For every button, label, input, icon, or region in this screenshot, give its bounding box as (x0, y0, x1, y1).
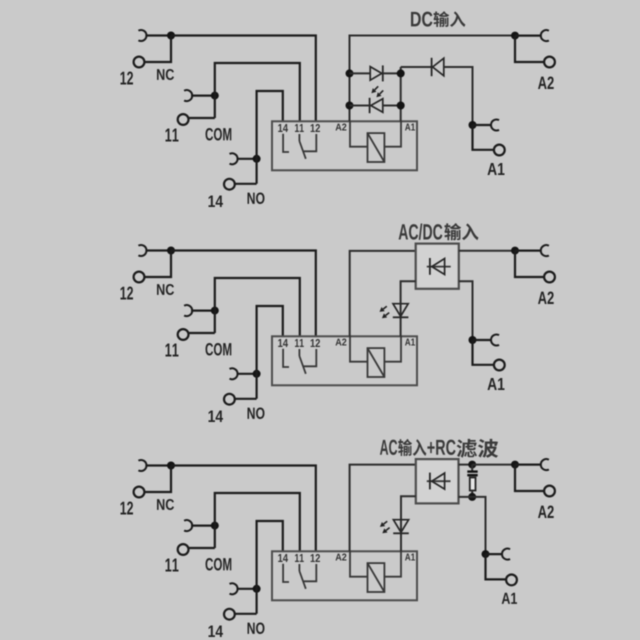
LED LD1 light arrow 2 (380, 90, 384, 94)
screw terminal 11 (circuit 1) (178, 114, 189, 125)
relay pin label A2 (336, 339, 347, 346)
label 11 (166, 344, 179, 357)
contact 12 fixed (NC) (303, 349, 317, 366)
LED LD2 light arrow 2 (386, 313, 390, 316)
label NO (248, 408, 265, 420)
coil wire from pin A2 (350, 336, 368, 361)
node A1 junction (circuit 1) (469, 121, 477, 129)
label A1 (488, 163, 505, 175)
relay pin label 12 (311, 339, 320, 347)
node right bus lower junction (397, 102, 405, 110)
LED LD3 light arrow 1 (384, 521, 388, 524)
label 14 (209, 411, 224, 423)
wire COM socket to junction (191, 524, 215, 526)
wire COM junction down to screw 11 (189, 117, 215, 119)
node NO junction (253, 155, 261, 163)
label NC (157, 499, 174, 510)
socket contact 11/COM (circuit 3) (184, 520, 192, 531)
wire COM junction down to screw 11 (189, 547, 215, 549)
screw terminal A2 (circuit 1) (544, 57, 555, 68)
node A1 junction (circuit 2) (469, 336, 477, 344)
wire NC junction down to screw 12 (144, 466, 171, 493)
screw terminal 11 (circuit 2) (178, 329, 189, 340)
wire A2 bus top (circuit 1) (350, 36, 516, 122)
wire A1 junction down to screw (473, 125, 495, 150)
relay pin label A2 (336, 554, 347, 561)
label A1 (488, 378, 505, 390)
relay pin label 11 (295, 124, 304, 132)
relay coil K3 (368, 563, 385, 592)
wire to protection diode anode (350, 72, 371, 74)
socket contact A2 (541, 245, 549, 256)
label 12 (121, 72, 134, 85)
label A1 (circuit 3) (502, 593, 517, 604)
screw terminal 12 (circuit 3) (134, 487, 145, 498)
node COM junction (211, 522, 219, 530)
socket contact 12/NC (circuit 1) (138, 30, 146, 41)
wire right bus down to pin A1 (circuit 1) (400, 67, 402, 121)
coil wire to pin A1 (384, 551, 401, 576)
title 输入 (cjk run) (398, 439, 426, 456)
wire RC stub down to capacitor (471, 465, 473, 471)
socket contact A2 (541, 30, 549, 41)
socket contact A1 (circuit 3) (502, 549, 510, 560)
socket contact 12/NC (circuit 2) (138, 245, 146, 256)
node coil-left upper junction (346, 69, 354, 77)
relay pin label 14 (278, 339, 288, 347)
wire NC junction to relay pin 12 (171, 251, 316, 337)
wire LED anode to right bus (383, 105, 401, 107)
wire A2 junction down to screw (515, 465, 544, 491)
label A2 (538, 292, 554, 305)
LED LD2 light arrow 1 (383, 306, 387, 309)
wire D1 cathode to right bus (383, 72, 401, 74)
contact 14 fixed (NO) (283, 134, 289, 152)
contact 11 common armature (298, 134, 300, 141)
screw terminal 14 (circuit 2) (224, 394, 235, 405)
label NC (157, 69, 174, 80)
relay pin label 12 (311, 124, 320, 132)
wire rectifier to A2 terminal (circuit 2) (459, 250, 515, 252)
relay coil K1 (368, 133, 385, 162)
label 14 (209, 626, 224, 638)
contact 14 fixed (NO) (283, 349, 289, 367)
wire COM junction to relay pin 11 (215, 278, 300, 336)
LED LD1 triangle (371, 99, 383, 113)
protection diode D1 cathode bar (382, 65, 384, 81)
capacitor C1 top plate (467, 470, 477, 472)
wire COM junction to relay pin 11 (215, 63, 300, 121)
coil wire from pin A2 (350, 551, 368, 576)
rectifier B2 internal wire (427, 266, 451, 268)
wire NO junction to relay pin 14 (257, 521, 283, 614)
screw terminal A1 (circuit 3) (506, 575, 517, 586)
node COM junction (211, 307, 219, 315)
rectifier box B3 (416, 459, 459, 503)
label 11 (166, 129, 179, 142)
LED LD1 cathode bar (369, 98, 371, 113)
node A2 junction (circuit 1) (511, 32, 519, 40)
title AC/DC输入 (cjk run) (444, 223, 478, 240)
contact 11 common armature (298, 564, 300, 571)
title AC/DC输入 (latin run) (399, 224, 443, 240)
coil diagonal (368, 348, 385, 377)
series diode D2 cathode bar (431, 58, 433, 76)
wire A2 junction down to screw (515, 36, 544, 62)
node NO junction (253, 585, 261, 593)
node NC junction (167, 462, 175, 470)
socket contact 14/NO (circuit 3) (230, 583, 238, 594)
coil wire to pin A1 (384, 121, 401, 146)
rectifier B3 diode cathode bar (429, 473, 431, 490)
screw terminal 12 (circuit 1) (134, 57, 145, 68)
wire A1 junction to socket (473, 339, 492, 341)
title 滤波 (cjk run) (457, 439, 499, 458)
screw terminal 12 (circuit 2) (134, 272, 145, 283)
socket contact A2 (541, 459, 549, 470)
rectifier B2 diode cathode bar (429, 258, 431, 275)
wire resistor to bottom node (471, 491, 473, 497)
node coil-left lower junction (346, 102, 354, 110)
protection diode D1 triangle (370, 67, 382, 81)
node NC junction (167, 247, 175, 255)
screw terminal A2 (circuit 3) (544, 486, 555, 497)
wire LED cathode to left bus (350, 105, 370, 107)
rectifier B3 internal wire (427, 480, 451, 482)
wire series diode to A1 drop (444, 67, 473, 125)
wire NO socket to junction (237, 158, 257, 160)
wire NC socket to junction (145, 249, 171, 251)
rectifier B3 diode triangle (432, 473, 445, 489)
wire rectifier to A1 terminal (circuit 2) (459, 281, 473, 340)
relay pin label A1 (405, 554, 415, 561)
wire A2 junction to socket (515, 250, 541, 252)
wire NO socket to junction (237, 588, 257, 590)
label COM (206, 558, 232, 571)
title DC输入 (cjk run) (434, 11, 466, 27)
node COM junction (211, 92, 219, 100)
contact 12 fixed (NC) (303, 134, 317, 151)
wire NC socket to junction (145, 34, 171, 36)
wire right bus to series diode (401, 66, 432, 68)
socket contact 12/NC (circuit 3) (138, 460, 146, 471)
wire NO junction to relay pin 14 (257, 91, 283, 184)
label NO (248, 193, 265, 205)
label COM (206, 343, 232, 356)
node A2 junction (circuit 2) (511, 247, 519, 255)
wire NO junction to relay pin 14 (257, 306, 283, 399)
wire rectifier to LED branch (401, 281, 416, 336)
wire A2 bus (circuit 2) (350, 251, 416, 336)
LED LD3 triangle (393, 520, 408, 533)
rectifier B2 diode triangle (432, 259, 445, 275)
node right bus upper junction (397, 69, 405, 77)
coil diagonal (368, 563, 385, 592)
relay pin label 12 (311, 554, 320, 562)
wire NO socket to junction (237, 373, 257, 375)
wire COM socket to junction (191, 310, 215, 312)
wire A1 junction to socket (473, 124, 492, 126)
screw terminal 14 (circuit 1) (224, 179, 235, 190)
title DC输入 (latin run) (411, 12, 433, 27)
wire NC junction to relay pin 12 (171, 36, 316, 122)
wire A1 junction down to screw (473, 340, 495, 365)
contact 11 common armature (298, 349, 300, 356)
socket contact 11/COM (circuit 2) (184, 305, 192, 316)
wire NC junction down to screw 12 (144, 251, 171, 278)
label COM (206, 128, 232, 141)
contact 12 fixed (NC) (303, 564, 317, 581)
coil diagonal (368, 133, 385, 162)
relay pin label A1 (405, 339, 415, 346)
socket contact 14/NO (circuit 2) (230, 368, 238, 379)
wire A2 junction to socket (515, 464, 541, 466)
wire COM junction down to screw 11 (189, 332, 215, 334)
relay pin label A1 (405, 124, 415, 131)
relay pin label 11 (295, 339, 304, 347)
label 12 (121, 287, 134, 300)
screw terminal A1 (circuit 1) (494, 145, 505, 156)
LED LD3 light arrow 2 (386, 528, 390, 531)
LED LD3 cathode bar (393, 532, 409, 534)
resistor R1 body (470, 478, 476, 491)
node A2 junction (circuit 3) (511, 461, 519, 469)
node RC top junction (468, 461, 476, 469)
socket contact A1 (491, 120, 499, 131)
wire rectifier bottom to RC bottom node (459, 496, 473, 498)
label 12 (121, 502, 134, 515)
capacitor C1 bottom plate (467, 474, 477, 476)
series diode D2 triangle (433, 58, 444, 76)
socket contact 11/COM (circuit 1) (184, 90, 192, 101)
contact 14 fixed (NO) (283, 564, 289, 582)
node RC bottom junction (468, 493, 476, 501)
title +RC (latin run) (427, 440, 455, 455)
wire COM socket to junction (191, 94, 215, 96)
wire NO junction down to screw 14 (236, 398, 257, 400)
wire NO junction down to screw 14 (236, 613, 257, 615)
LED LD2 cathode bar (393, 316, 409, 318)
node NC junction (167, 32, 175, 40)
relay pin label 14 (278, 124, 288, 132)
screw terminal 14 (circuit 3) (224, 609, 235, 620)
coil wire from pin A2 (350, 121, 368, 146)
rectifier box B2 (416, 244, 459, 289)
wire NC socket to junction (145, 464, 171, 466)
wire rectifier to LED branch (circuit 3) (401, 496, 416, 551)
wire NC junction down to screw 12 (144, 36, 171, 63)
wire NC junction to relay pin 12 (171, 466, 316, 552)
relay pin label A2 (336, 124, 347, 131)
wire NO junction down to screw 14 (236, 183, 257, 185)
wire RC node to A2 terminal (472, 464, 515, 466)
label NC (157, 284, 174, 295)
label NO (248, 623, 265, 635)
coil wire to pin A1 (384, 336, 401, 361)
screw terminal A2 (circuit 2) (544, 272, 555, 283)
wire A2 junction down to screw (515, 251, 544, 277)
node NO junction (253, 370, 261, 378)
wire A1 junction to socket (486, 553, 503, 555)
relay pin label 14 (278, 554, 288, 562)
screw terminal A1 (circuit 2) (494, 360, 505, 371)
wire COM junction to relay pin 11 (215, 493, 300, 551)
title AC输入+RC滤波 (latin run AC) (380, 440, 397, 455)
wire A1 junction down to screw (486, 554, 507, 579)
relay coil K2 (368, 348, 385, 377)
label A2 (538, 506, 554, 519)
relay pin label 11 (295, 554, 304, 562)
wire A2 bus (circuit 3) (350, 465, 416, 552)
LED LD1 light arrow 1 (375, 86, 379, 90)
screw terminal 11 (circuit 3) (178, 544, 189, 555)
label A2 (538, 77, 554, 90)
LED LD2 triangle (393, 304, 408, 317)
node A1 junction (circuit 3) (482, 550, 490, 558)
socket contact 14/NO (circuit 1) (230, 153, 238, 164)
label 11 (166, 559, 179, 572)
socket contact A1 (491, 335, 499, 346)
label 14 (209, 196, 224, 208)
wire RC bottom node to A1 terminal (circuit 3) (472, 497, 485, 554)
wire A2 junction to socket (515, 34, 541, 36)
wire rectifier to RC node (circuit 3) (459, 464, 473, 466)
